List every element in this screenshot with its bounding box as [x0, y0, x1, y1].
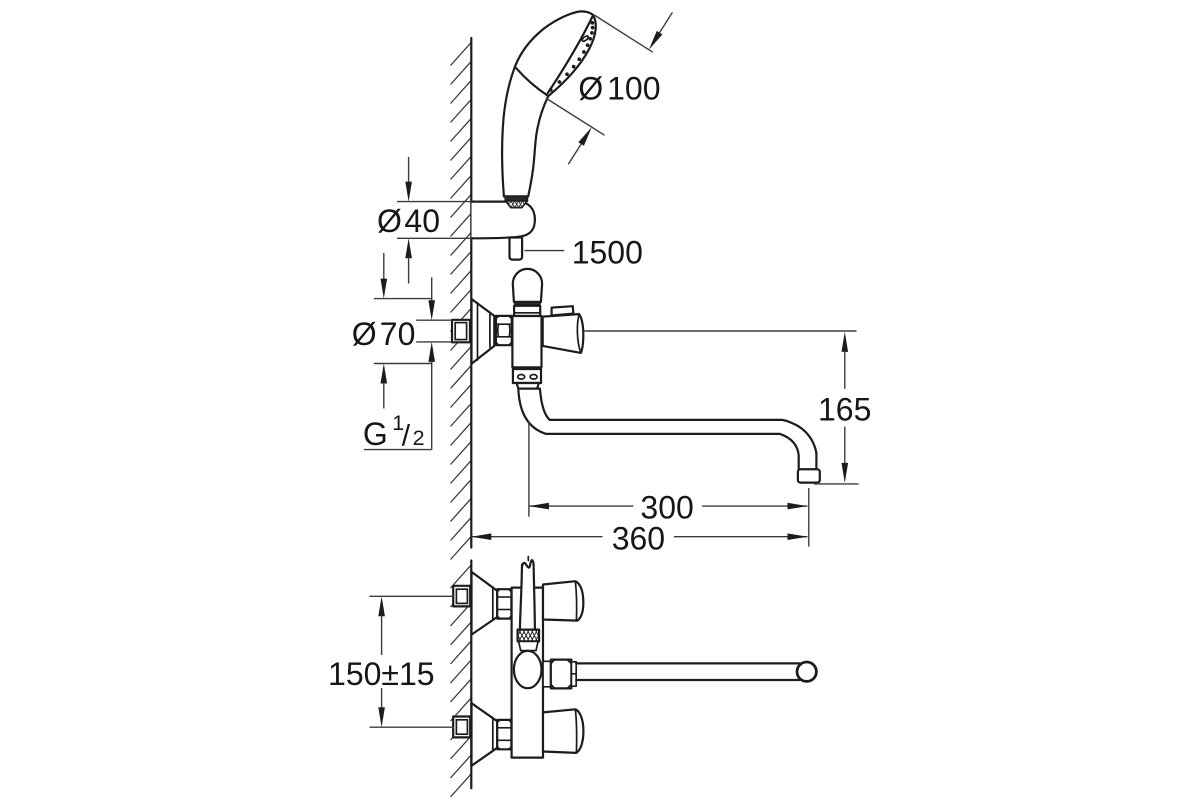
- shower face inner rim: [548, 17, 593, 94]
- spout connector (top view): [543, 661, 551, 687]
- dim Ø40 arrows: [408, 157, 410, 183]
- body collar: [514, 306, 540, 316]
- svg-text:/: /: [402, 420, 411, 453]
- G1/2 arrows: [431, 278, 433, 302]
- spout end (top view): [797, 662, 816, 681]
- escutcheon top (top view): [472, 572, 498, 635]
- shower face slot: [581, 35, 589, 42]
- dim 300 ext line: [528, 422, 530, 517]
- svg-text:100: 100: [607, 71, 660, 107]
- svg-text:Ø: Ø: [578, 71, 603, 107]
- G1/2 leader underline: [364, 449, 432, 451]
- diverter dome: [513, 269, 542, 302]
- handle cone top (top view): [543, 581, 583, 620]
- handle cone (front view): [543, 314, 584, 353]
- diverter ball (top view): [514, 651, 542, 688]
- spout (front view): [518, 389, 816, 470]
- hose connector below holder: [510, 238, 523, 260]
- dim 300 line: [529, 505, 633, 507]
- hex bottom (top view): [497, 720, 511, 749]
- dim Ø70 arrows: [383, 253, 385, 281]
- wall (upper, front view): [451, 42, 472, 559]
- G1/2 square nipple: [452, 320, 470, 343]
- wall (lower, top view): [451, 565, 472, 797]
- dim Ø100 ext line bottom: [547, 99, 605, 136]
- dim 165 top ref line: [584, 330, 856, 332]
- dim right ext line: [808, 488, 810, 547]
- hex nut (front view): [496, 316, 512, 345]
- hose knurled nut (top view): [518, 630, 540, 642]
- dim 165 bottom ref line: [814, 483, 859, 485]
- dim 360 line: [471, 536, 602, 538]
- G1/2 edge ext lines: [416, 319, 452, 321]
- spout outlet: [798, 469, 820, 482]
- spout nut end ring: [571, 662, 576, 686]
- dim Ø40 ref lines: [397, 201, 471, 203]
- dim 150±15 line + arrows: [378, 596, 385, 616]
- hose cone (top view): [519, 641, 539, 650]
- svg-text:G: G: [363, 416, 388, 452]
- handle cone bottom (top view): [543, 709, 583, 753]
- label 1500 leader: [524, 250, 564, 252]
- escutcheon (front view): [472, 299, 495, 364]
- body (top view): [512, 588, 543, 758]
- shower holder: [472, 202, 535, 239]
- hand shower outline: [502, 11, 596, 196]
- shower hose nut band: [505, 196, 528, 201]
- shower neck crease: [516, 68, 548, 96]
- body ring nut: [513, 369, 541, 383]
- spout tube (top view): [576, 662, 799, 664]
- dim Ø100 arrow bottom: [568, 135, 587, 165]
- dim Ø100 arrow top: [653, 12, 672, 42]
- dim Ø70 ref lines: [374, 298, 433, 300]
- svg-text:2: 2: [413, 426, 425, 450]
- dome groove: [514, 302, 541, 304]
- dim 150±15 ref lines: [370, 595, 455, 597]
- svg-text:Ø: Ø: [352, 316, 377, 352]
- hex top (top view): [497, 589, 511, 618]
- escutcheon bottom (top view): [472, 703, 498, 766]
- dim 165 line + arrows: [842, 332, 849, 352]
- union square bottom: [453, 717, 470, 738]
- spout nut (top view): [551, 660, 572, 689]
- body neck: [517, 383, 539, 389]
- hose break mark: [522, 560, 534, 567]
- union square top: [453, 586, 470, 607]
- faucet body (front view): [512, 316, 541, 367]
- svg-text:165: 165: [818, 392, 871, 428]
- svg-text:1500: 1500: [572, 234, 643, 270]
- svg-text:40: 40: [404, 203, 440, 239]
- svg-text:Ø: Ø: [377, 203, 402, 239]
- svg-text:70: 70: [380, 316, 416, 352]
- svg-text:360: 360: [612, 520, 665, 556]
- svg-text:150±15: 150±15: [328, 656, 435, 692]
- handle tab: [552, 306, 574, 315]
- shower hose (top view): [520, 565, 535, 630]
- dim Ø100 ext line top: [594, 15, 653, 52]
- spray nozzles: [591, 21, 595, 25]
